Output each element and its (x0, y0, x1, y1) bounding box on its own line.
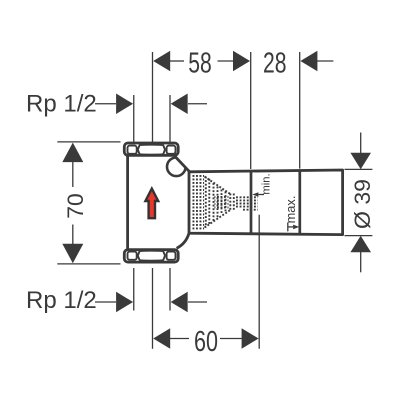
svg-text:58: 58 (188, 48, 212, 80)
tick max tail (287, 222, 289, 231)
svg-text:70: 70 (63, 193, 88, 219)
arrow 58 left (153, 51, 170, 71)
arrow 60 right (242, 328, 259, 348)
dim tail d39 top (360, 133, 362, 154)
leader Rp top right (188, 103, 207, 105)
arrow Rp bottom right (171, 292, 188, 312)
dotted cone core (215, 195, 229, 209)
arrow max (293, 225, 299, 230)
dim line 58 left segment (170, 60, 184, 62)
funnel top diagonal (175, 156, 190, 172)
dim line 58 right segment (218, 60, 234, 62)
arrow 70 down (62, 244, 83, 264)
svg-text:Ø 39: Ø 39 (350, 179, 375, 229)
red flow arrow (145, 189, 158, 219)
extension line Rp bottom right (169, 268, 171, 311)
extension line 70 bottom (57, 263, 120, 265)
extension line Rp top right (169, 95, 171, 142)
bottom nut left facet (128, 252, 137, 260)
dim line 60 left segment (170, 338, 189, 340)
top nut right facet (167, 146, 176, 154)
extension line 28 right / max (299, 52, 301, 169)
arrow Rp top left (116, 94, 133, 114)
bottom nut outline (124, 250, 178, 262)
bottom nut middle facet (138, 251, 165, 261)
dotted bell (230, 194, 234, 211)
leader spindle depth (258, 215, 260, 349)
dim tail 28 right (317, 60, 334, 62)
bottom nut right facet (167, 252, 176, 260)
centerline axis bottom (152, 268, 154, 349)
svg-text:60: 60 (194, 326, 218, 358)
leader Rp bottom right (188, 301, 207, 303)
bottom fillet (177, 233, 189, 248)
checker band funnel face (192, 174, 205, 230)
max line (298, 170, 301, 234)
tail max arrow (288, 226, 293, 228)
top nut middle facet (138, 145, 165, 155)
dim line 60 right segment (220, 338, 242, 340)
dotted spindle shaft (236, 197, 258, 209)
body left edge (126, 155, 129, 250)
side port circle (167, 158, 186, 177)
tail min arrow (259, 194, 265, 196)
arrow 70 up (62, 143, 83, 163)
arrow 58 right (233, 51, 250, 71)
top nut outline (124, 143, 178, 155)
arrow Rp top right (171, 94, 188, 114)
svg-text:min.: min. (260, 173, 272, 194)
dim tail d39 bottom (360, 252, 362, 272)
extension line Rp bottom left (133, 268, 135, 311)
dotted cone (205, 177, 231, 228)
extension line Rp top left (133, 95, 135, 142)
arrow 28 right outside (300, 51, 317, 71)
valve sleeve outline (189, 170, 343, 235)
extension line 58 right / min (250, 52, 252, 169)
centerline axis top (152, 52, 154, 142)
arrow Rp bottom left (116, 292, 133, 312)
extension line 70 top (57, 141, 120, 143)
min line (250, 171, 253, 234)
dim line 70 upper segment (72, 162, 74, 188)
leader Rp bottom left (95, 301, 116, 303)
top nut left facet (128, 146, 137, 154)
dim line 70 lower segment (72, 225, 74, 245)
extension line d39 bottom (345, 235, 373, 237)
arrow d39 up (350, 236, 371, 252)
arrow 60 left (153, 328, 170, 348)
svg-text:28: 28 (263, 47, 287, 79)
extension line d39 top (345, 168, 373, 170)
arrow d39 down (350, 153, 371, 169)
svg-text:Rp 1/2: Rp 1/2 (26, 287, 97, 314)
arrow min (252, 192, 258, 197)
leader Rp top left (95, 103, 116, 105)
svg-text:max.: max. (283, 196, 298, 224)
svg-text:Rp 1/2: Rp 1/2 (26, 90, 97, 117)
